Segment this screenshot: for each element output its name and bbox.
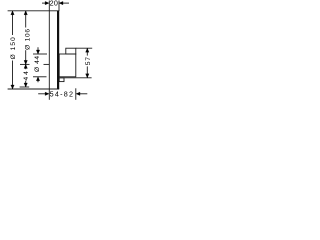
bottom extension bar <box>8 88 60 90</box>
arrowhead Ø44 bottom <box>36 77 39 81</box>
arrowhead Ø106 bottom <box>24 60 27 64</box>
svg-text:Ø 44: Ø 44 <box>34 55 41 71</box>
extension bar 44 bottom <box>20 86 30 88</box>
arrowhead 44 top <box>24 64 27 68</box>
svg-text:Ø 106: Ø 106 <box>24 28 31 50</box>
extension bar Ø106 bottom <box>20 63 30 65</box>
arrowhead 20 left <box>45 1 49 4</box>
plate face extension line (top) <box>58 1 60 12</box>
arrowhead 44 bottom <box>24 83 27 87</box>
extension bar sleeve bottom <box>33 76 47 78</box>
arrowhead Ø106 top <box>24 11 27 15</box>
dimension line 20 tails <box>42 2 46 4</box>
arrowhead Ø44 top <box>36 50 39 54</box>
top extension bar <box>8 10 60 12</box>
handle sleeve (Ø44 cylinder) <box>59 54 76 77</box>
dimension line 54-82 tails <box>38 93 46 95</box>
svg-text:20: 20 <box>50 0 59 8</box>
dimension line Ø44 tails <box>37 47 39 54</box>
extension bar sleeve top <box>33 53 47 55</box>
extension line 57 bottom <box>59 77 91 79</box>
wall/body left edge line <box>48 1 50 100</box>
arrowhead Ø150 bottom <box>11 85 14 89</box>
svg-text:44: 44 <box>23 69 30 80</box>
arrowhead 57 bottom <box>86 74 89 78</box>
arrowhead 54-82 right <box>76 92 80 95</box>
dimension line Ø106 and 44 <box>25 11 27 28</box>
handle grip fin <box>66 48 76 54</box>
arrowhead 54-82 left <box>45 92 49 95</box>
dimension line 57 <box>86 48 88 55</box>
svg-text:Ø 150: Ø 150 <box>10 36 17 59</box>
dimension line Ø150 <box>12 11 14 35</box>
safety stop button <box>59 78 64 82</box>
extension line 57 top <box>76 47 92 49</box>
arrowhead 57 top <box>86 48 89 52</box>
arrowhead 20 right <box>59 1 63 4</box>
extension line 54-82 right <box>75 88 77 100</box>
arrowhead Ø150 top <box>11 11 14 15</box>
svg-text:54-82: 54-82 <box>50 90 75 99</box>
escutcheon plate (thick bar) <box>57 11 59 89</box>
svg-text:57: 57 <box>85 56 92 65</box>
